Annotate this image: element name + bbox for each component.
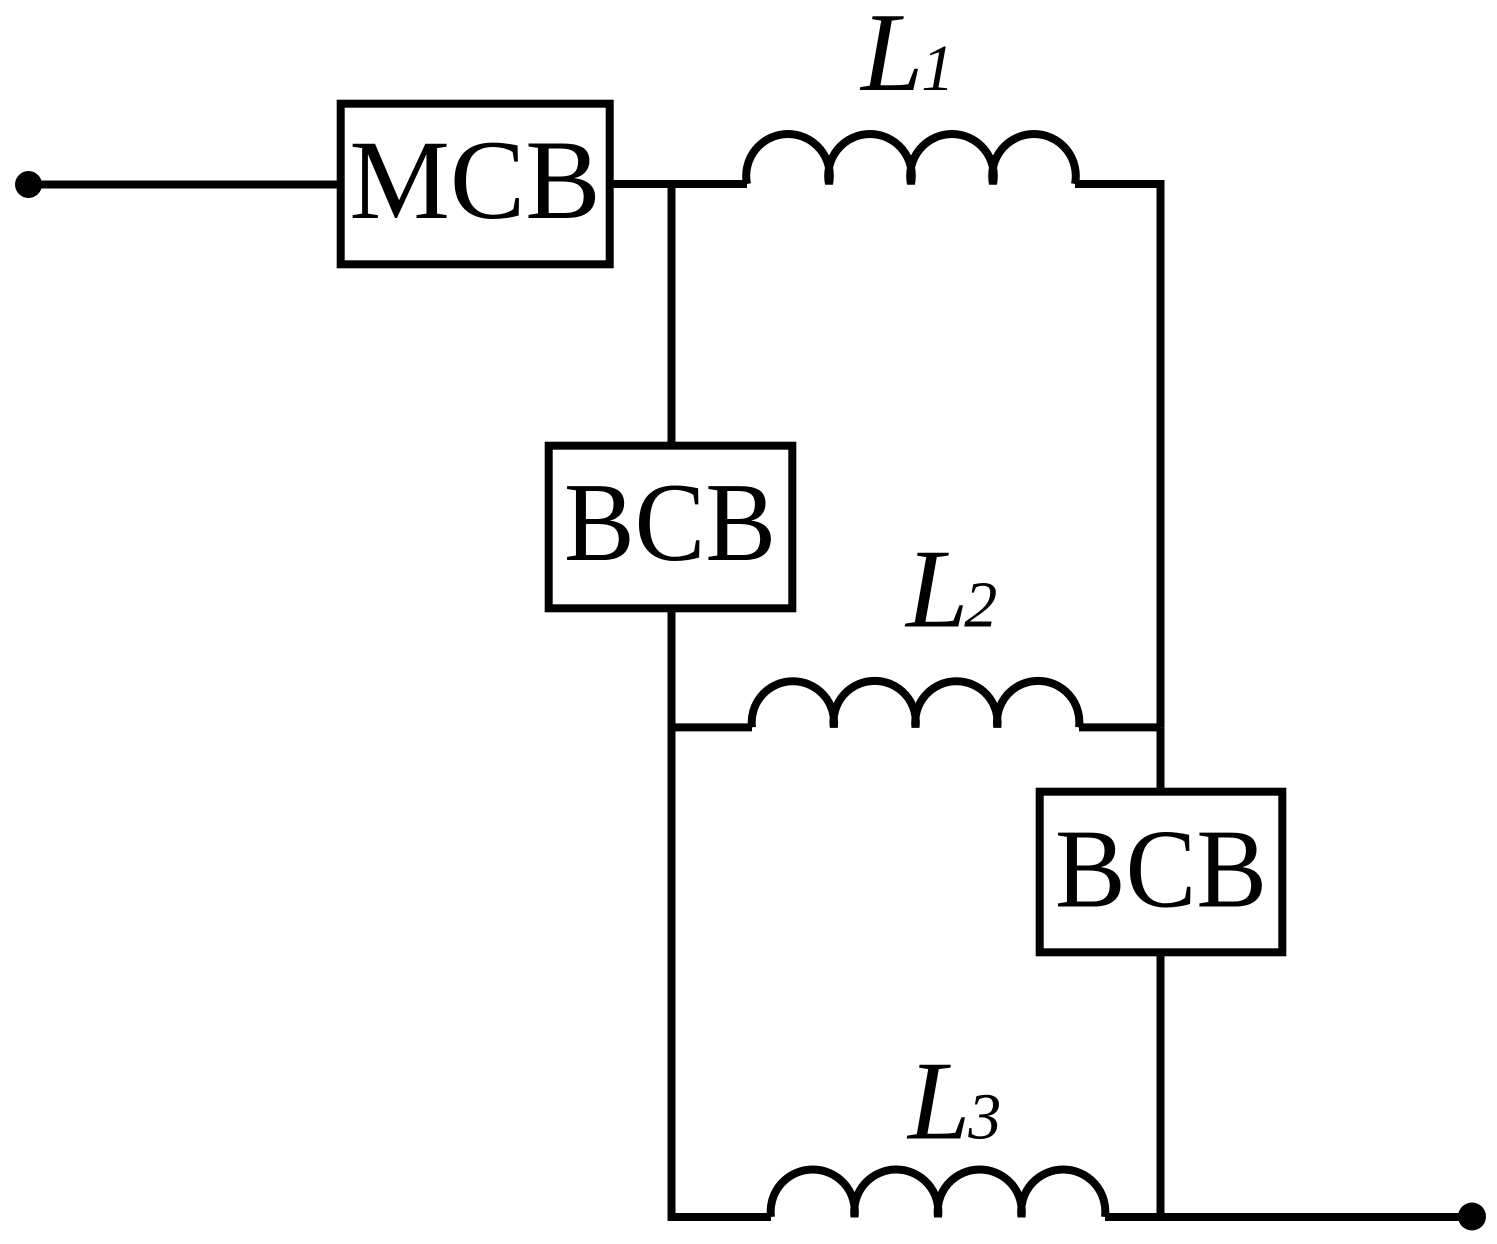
- wire BCB2 to bottom rail: [1157, 952, 1165, 1217]
- inductor L1: [746, 134, 1076, 184]
- wire IN to MCB: [29, 181, 341, 189]
- svg-text:MCB: MCB: [349, 118, 600, 243]
- wire MCB to node A and L1 left lead: [614, 180, 748, 188]
- wire node A down to BCB1: [668, 184, 676, 445]
- wire bottom rail left lead: [668, 1213, 771, 1221]
- wire node B down to bottom rail: [668, 724, 676, 1221]
- terminal node IN: [15, 171, 42, 198]
- svg-text:L3: L3: [906, 1040, 1001, 1164]
- terminal node OUT: [1458, 1203, 1486, 1231]
- wire L1 right lead to right bus corner: [1075, 184, 1161, 727]
- wire right bus to BCB2: [1157, 727, 1165, 791]
- svg-text:L1: L1: [859, 0, 954, 115]
- wire L2 right lead to right bus: [1079, 723, 1161, 731]
- circuit breaker MCB: [341, 104, 610, 265]
- wire node B to L2 left lead: [668, 723, 752, 731]
- circuit breaker BCB1: [549, 446, 793, 609]
- circuit breaker BCB2: [1040, 792, 1283, 953]
- inductor L2: [752, 681, 1080, 728]
- svg-text:BCB: BCB: [564, 461, 776, 585]
- wire BCB1 to node B: [668, 608, 676, 727]
- inductor L3: [771, 1169, 1106, 1217]
- wire L3 right lead to OUT: [1105, 1213, 1472, 1221]
- svg-text:L2: L2: [904, 528, 997, 652]
- svg-text:BCB: BCB: [1055, 808, 1267, 932]
